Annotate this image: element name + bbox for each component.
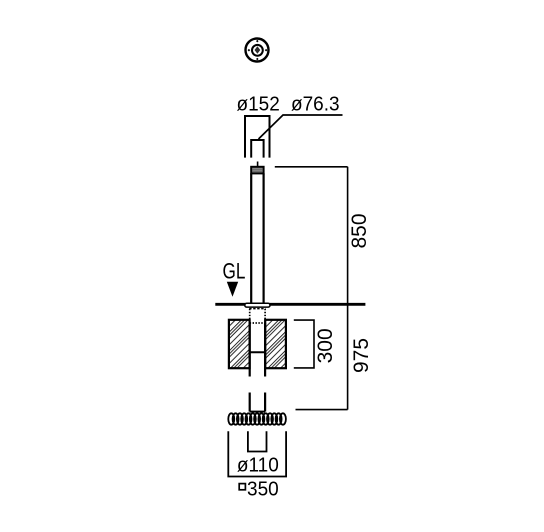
top view tick top	[256, 40, 259, 43]
flange plate	[245, 303, 270, 307]
svg-text:ø76.3: ø76.3	[291, 93, 340, 116]
svg-text:850: 850	[348, 213, 371, 248]
pole body	[251, 173, 263, 303]
300 extent bracket	[294, 320, 314, 368]
label 975	[350, 338, 373, 373]
label GL	[223, 260, 246, 285]
label square symbol	[239, 484, 245, 490]
svg-text:300: 300	[314, 328, 337, 363]
coil screw anchor	[228, 413, 286, 424]
ground line	[215, 303, 365, 306]
top view center diamond	[255, 46, 261, 54]
svg-text:ø110: ø110	[237, 454, 279, 477]
pole center tick	[257, 162, 259, 167]
label 850	[348, 213, 371, 248]
svg-text:975: 975	[350, 338, 373, 373]
Ø76.3 extent bracket	[251, 140, 263, 158]
350 extent bracket	[228, 431, 286, 476]
975 bottom extension line	[296, 409, 348, 411]
sleeve hidden top edge	[249, 308, 265, 310]
Ø110 extent bracket	[248, 431, 267, 451]
leader line from Ø76.3 label to inner bracket	[259, 115, 343, 139]
top view tick bottom	[256, 58, 259, 61]
pipe lower segment after break	[250, 393, 265, 412]
svg-text:GL: GL	[223, 260, 246, 285]
top view inner circle	[252, 45, 263, 56]
top view tick left	[248, 49, 251, 52]
top view tick right	[265, 49, 268, 52]
GL arrow	[227, 282, 238, 297]
label 350	[247, 478, 279, 501]
svg-text:350: 350	[247, 478, 279, 501]
label 300	[314, 328, 337, 363]
sleeve solid sides through foundation	[250, 323, 265, 377]
svg-text:ø152: ø152	[237, 93, 280, 116]
label Ø110	[237, 454, 279, 477]
sleeve joint line	[249, 351, 266, 353]
850 top extension line	[275, 166, 348, 168]
sleeve hidden sides	[250, 309, 265, 323]
foundation left block	[229, 320, 250, 368]
Ø152 extent bracket	[245, 116, 270, 158]
sleeve hidden bottom edge	[250, 322, 265, 324]
label Ø76.3	[291, 93, 340, 116]
foundation right block	[265, 320, 286, 368]
dimension line 850/975	[347, 167, 349, 410]
pole cap	[251, 167, 263, 174]
top view outer circle	[246, 39, 269, 62]
label Ø152	[237, 93, 280, 116]
